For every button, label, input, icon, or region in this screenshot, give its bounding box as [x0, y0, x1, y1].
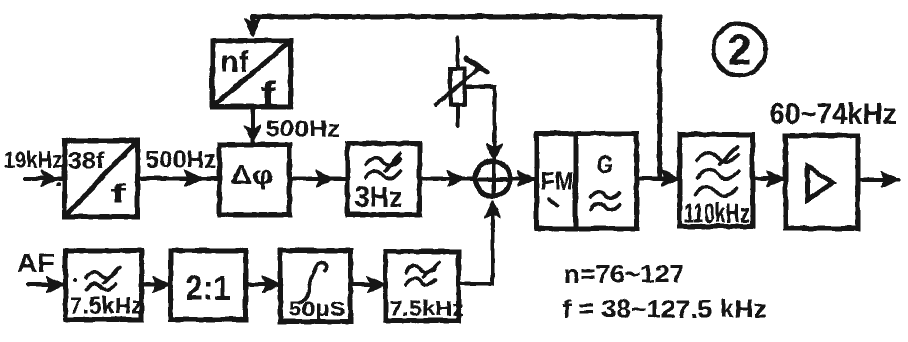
svg-text:f: f — [260, 74, 275, 113]
svg-text:19kHz: 19kHz — [3, 146, 62, 172]
svg-text:2:1: 2:1 — [185, 269, 230, 307]
svg-text:500Hz: 500Hz — [145, 146, 216, 173]
svg-text:2: 2 — [727, 26, 751, 74]
svg-text:3Hz: 3Hz — [354, 181, 402, 213]
svg-text:50μS: 50μS — [288, 298, 345, 320]
svg-text:Δφ: Δφ — [230, 159, 273, 189]
svg-text:7.5kHz: 7.5kHz — [389, 297, 463, 320]
svg-text:500Hz: 500Hz — [265, 115, 340, 141]
svg-text:7.5kHz: 7.5kHz — [69, 292, 142, 318]
svg-text:60~74kHz: 60~74kHz — [769, 97, 896, 130]
svg-text:nf: nf — [220, 45, 249, 78]
svg-text:38f: 38f — [67, 147, 104, 173]
svg-text:f: f — [110, 178, 127, 208]
svg-text:FM: FM — [540, 167, 573, 195]
svg-text:110kHz: 110kHz — [683, 197, 749, 228]
svg-text:n=76~127: n=76~127 — [563, 260, 684, 288]
svg-text:AF: AF — [16, 247, 54, 277]
svg-text:f = 38~127.5 kHz: f = 38~127.5 kHz — [562, 295, 766, 323]
svg-text:G: G — [596, 151, 613, 179]
